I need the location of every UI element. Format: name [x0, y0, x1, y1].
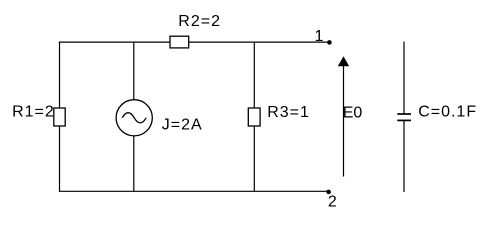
wire top rail right segment to node 1 — [189, 41, 328, 43]
svg-text:R2=2: R2=2 — [178, 13, 221, 30]
label 1 — [315, 28, 325, 45]
wire middle branch lower — [133, 136, 135, 192]
current source sine symbol — [122, 113, 146, 123]
label 2 — [328, 193, 338, 210]
wire left branch lower — [59, 126, 61, 192]
label R1=2 — [12, 104, 55, 121]
wire left branch upper — [59, 42, 61, 109]
svg-text:2: 2 — [328, 193, 338, 210]
svg-text:R3=1: R3=1 — [267, 104, 310, 121]
E0 arrow shaft — [343, 64, 345, 177]
resistor R3 — [248, 108, 260, 126]
resistor R1 — [54, 108, 65, 126]
label R3=1 — [267, 104, 310, 121]
label C=0.1F — [418, 103, 477, 120]
svg-text:C=0.1F: C=0.1F — [418, 103, 477, 120]
capacitor C bottom lead — [403, 121, 405, 192]
node 1 terminal dot — [327, 40, 332, 45]
label R2=2 — [178, 13, 221, 30]
E0 arrowhead — [338, 56, 349, 66]
capacitor C top lead — [403, 42, 405, 114]
label J=2A — [162, 117, 203, 134]
svg-text:R1=2: R1=2 — [12, 104, 55, 121]
svg-text:1: 1 — [315, 28, 325, 45]
wire right branch lower — [253, 126, 255, 192]
current source J1 circle — [116, 100, 152, 136]
wire right branch upper — [253, 42, 255, 108]
node 2 terminal dot — [326, 190, 331, 195]
resistor R2 — [170, 36, 189, 48]
svg-text:E0: E0 — [343, 104, 363, 121]
wire middle branch upper — [133, 42, 135, 100]
wire top rail left segment — [59, 41, 170, 43]
svg-text:J=2A: J=2A — [162, 117, 203, 134]
wire bottom rail — [59, 190, 327, 192]
capacitor C top plate — [397, 113, 411, 115]
label E0 — [343, 104, 363, 121]
capacitor C bottom plate — [397, 119, 411, 121]
